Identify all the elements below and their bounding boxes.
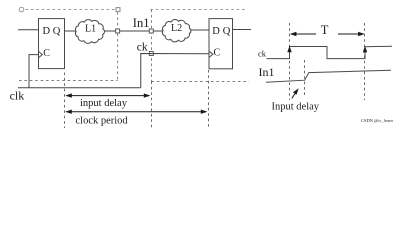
wire clk main (18, 87, 141, 89)
svg-text:In1: In1 (133, 16, 150, 30)
dashed measure line at Q1 launch (64, 73, 66, 129)
svg-text:Q: Q (53, 26, 61, 37)
svg-text:clk: clk (10, 88, 25, 102)
node ck square (149, 52, 153, 56)
svg-text:In1: In1 (259, 65, 275, 79)
flip-flop U2 box (209, 19, 233, 69)
dimension T arrow (291, 33, 316, 35)
wire D1 input (18, 29, 39, 31)
svg-text:input delay: input delay (80, 98, 128, 109)
node In1 square (149, 29, 153, 33)
svg-text:clock period: clock period (76, 116, 129, 127)
U1 clock triangle (39, 51, 43, 57)
flip-flop U1 box (39, 19, 65, 69)
svg-text:L1: L1 (85, 24, 96, 35)
dashed boundary top of FF2 region (150, 9, 245, 11)
svg-text:C: C (214, 47, 221, 58)
svg-text:D: D (43, 26, 51, 37)
timing: dashed line first ck edge (289, 23, 291, 100)
node square on wire (launch boundary) (116, 29, 120, 33)
svg-text:CSDN @ic_learn: CSDN @ic_learn (361, 118, 393, 123)
arrow clock period (67, 111, 207, 113)
timing: dashed line In1 transition (304, 60, 306, 97)
ck rising edge arrowhead 1 (287, 46, 291, 52)
In1 waveform (266, 70, 391, 82)
cloud L1 (75, 20, 104, 44)
cloud L2 (162, 20, 191, 42)
svg-text:L2: L2 (171, 23, 182, 34)
wire clk to C1 (29, 55, 39, 88)
wire Q1 to cloud L1 (65, 30, 78, 32)
wire L1 to L2 (104, 30, 164, 32)
svg-text:ck: ck (137, 41, 148, 53)
svg-text:C: C (43, 48, 50, 59)
wire dashed net highlight top (26, 9, 116, 11)
timing: dashed line second ck edge (364, 23, 366, 100)
annotation arrow to In1 edge (292, 91, 297, 99)
wire Q2 output (233, 29, 252, 31)
U2 clock triangle (209, 51, 213, 57)
dashed measure line at D2 (208, 70, 210, 128)
node square marker top (116, 8, 120, 12)
svg-text:T: T (321, 23, 329, 37)
node circle marker top-left (19, 7, 24, 12)
svg-text:D: D (212, 26, 220, 37)
ck rising edge arrowhead 2 (363, 46, 367, 52)
svg-text:ck: ck (258, 49, 267, 59)
dashed boundary bottom of FF2 region (152, 81, 250, 83)
wire ck to C2 (141, 54, 209, 88)
wire L2 to D2 (191, 29, 210, 31)
dashed measure line at In1 capture (151, 82, 153, 129)
dashed boundary bottom of FF1 region (19, 80, 118, 82)
svg-text:Input delay: Input delay (272, 101, 320, 112)
dashed boundary right of FF1 region (117, 12, 119, 81)
arrow input delay (67, 95, 150, 97)
ck waveform (267, 46, 393, 58)
dashed boundary left of FF2 region (151, 10, 153, 82)
svg-text:Q: Q (223, 26, 231, 37)
